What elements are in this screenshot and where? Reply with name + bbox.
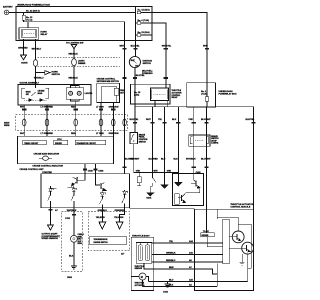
svg-text:BLK/YEL: BLK/YEL: [131, 46, 141, 48]
horn relay output to horn arrow: [18, 39, 28, 64]
svg-text:LT GRN/RED: LT GRN/RED: [41, 133, 54, 135]
wire No.4 branch continues down: [165, 50, 167, 88]
svg-text:HORN: HORN: [21, 63, 28, 65]
svg-text:RELAY: RELAY: [41, 33, 48, 36]
svg-text:(7.5A): (7.5A): [201, 93, 207, 96]
svg-text:CRUISE CONTROL INDICATOR: CRUISE CONTROL INDICATOR: [32, 165, 63, 168]
svg-text:BLK: BLK: [172, 119, 177, 121]
svg-text:DRIVER: DRIVER: [55, 143, 62, 145]
wires from left continuing inside: [216, 264, 218, 287]
to lighting switch arrow: [66, 43, 83, 59]
A/T dashed box with transmission range switch: [88, 208, 130, 256]
svg-text:GRN/ORN: GRN/ORN: [109, 107, 119, 109]
fuse No.13 (7.5A): [22, 12, 125, 48]
svg-text:G101: G101: [163, 291, 169, 293]
ground G501: [67, 266, 77, 279]
svg-text:LAMPS): LAMPS): [211, 142, 218, 145]
transistor Q2 in box: [96, 174, 106, 193]
svg-text:BLU: BLU: [169, 280, 174, 282]
cruise control set/resume switch box: [97, 79, 125, 103]
under-hood fuse/relay box: [16, 4, 152, 41]
svg-text:YEL/GRN: YEL/GRN: [114, 217, 124, 219]
internal ground: [241, 254, 243, 262]
wire ignition down: [134, 68, 136, 107]
throttle actuator motor: [139, 273, 146, 280]
svg-text:LIGHTS: LIGHTS: [85, 93, 93, 95]
svg-text:1: 1: [53, 188, 54, 190]
svg-text:BLK: BLK: [69, 255, 74, 257]
svg-text:BLK/YEL: BLK/YEL: [246, 119, 256, 121]
fuse No.23 row: [135, 31, 152, 36]
svg-text:BLU: BLU: [161, 159, 166, 161]
svg-text:(15A): (15A): [134, 93, 140, 96]
horn relay: [19, 22, 48, 40]
svg-text:WHT/BLU: WHT/BLU: [32, 48, 42, 50]
connector oval on horn wire: [33, 60, 37, 67]
svg-text:BLK/YEL: BLK/YEL: [125, 159, 135, 161]
cruise control unit box: [18, 136, 114, 167]
fuse No.15 row: [137, 8, 207, 48]
svg-text:M: M: [141, 276, 143, 279]
transistor Q5 (circled): [232, 231, 244, 243]
svg-text:SWITCH: SWITCH: [139, 141, 147, 143]
wire battery to box: [9, 11, 136, 13]
diode-switch chains in box: [48, 186, 128, 208]
svg-text:RED: RED: [71, 107, 76, 109]
svg-text:RING: RING: [78, 243, 83, 245]
fuse No.4 row: [135, 19, 165, 48]
svg-text:WHT: WHT: [20, 107, 25, 109]
svg-text:WHT: WHT: [146, 119, 151, 121]
svg-text:1: 1: [127, 191, 128, 193]
svg-text:LT GRN: LT GRN: [96, 107, 104, 109]
svg-text:WHT/BLU: WHT/BLU: [34, 78, 44, 80]
cable reel dashed box: [62, 208, 85, 272]
svg-text:G401: G401: [146, 197, 152, 200]
right internal rail: [250, 224, 252, 268]
svg-text:SET/RESUME SWITCH: SET/RESUME SWITCH: [97, 81, 120, 83]
chain 2: [73, 188, 75, 189]
svg-text:SW: SW: [26, 94, 29, 96]
svg-text:LT GRN/RED: LT GRN/RED: [41, 107, 54, 109]
chain 3: [101, 191, 103, 194]
svg-text:PNK: PNK: [189, 119, 194, 121]
svg-text:GRN/ORN: GRN/ORN: [109, 133, 119, 135]
wires below big box: [48, 209, 52, 211]
svg-text:TRANSMISSION: TRANSMISSION: [94, 238, 108, 241]
throttle actuator control relay box: [131, 84, 183, 107]
svg-text:RED/BLU: RED/BLU: [166, 260, 176, 262]
svg-text:WHT/YEL: WHT/YEL: [162, 46, 172, 48]
svg-text:BLK/YEL: BLK/YEL: [136, 75, 146, 77]
svg-text:YEL/RED: YEL/RED: [96, 217, 106, 219]
labels + ticks row y=117-124: [130, 119, 256, 121]
chain 4: [124, 190, 126, 191]
svg-text:WHT: WHT: [203, 46, 208, 48]
svg-text:GRN/BLK: GRN/BLK: [166, 253, 176, 255]
svg-text:BLK: BLK: [174, 159, 179, 161]
throttle body box: [131, 235, 154, 290]
svg-text:GRN/RED: GRN/RED: [18, 48, 28, 50]
wire color labels above ticks: [120, 46, 209, 48]
svg-text:SPEED SENSOR: SPEED SENSOR: [42, 238, 59, 240]
svg-text:RED/BLK: RED/BLK: [69, 78, 79, 80]
relay coil component on bus: [138, 172, 140, 177]
switch on bus: [152, 172, 154, 177]
svg-text:G501: G501: [67, 277, 73, 279]
svg-text:C705: C705: [65, 218, 71, 220]
ignition switch: [129, 56, 153, 74]
svg-text:DIMMER: DIMMER: [78, 63, 86, 65]
ground G401: [150, 187, 152, 193]
dash lights brightness controller (dashed harness): [33, 58, 120, 85]
svg-text:(7.5 A): (7.5 A): [26, 18, 33, 21]
svg-text:RANGE SWITCH: RANGE SWITCH: [94, 241, 109, 244]
CPU bar: [223, 219, 229, 263]
svg-text:LT GRN: LT GRN: [96, 133, 104, 135]
svg-text:CRUISE MAIN INDICATOR: CRUISE MAIN INDICATOR: [34, 152, 60, 155]
cruise main switch in gauge: [22, 85, 49, 102]
svg-text:1: 1: [105, 193, 106, 195]
horizontal bus y=105.5 to module: [135, 107, 254, 210]
svg-text:RED: RED: [71, 133, 76, 135]
transistor Q1 in box: [72, 174, 85, 189]
gauge assembly box: [18, 82, 91, 105]
transistor Q6 (circled): [242, 242, 254, 254]
throttle position sensor: [136, 243, 151, 264]
svg-text:BLU/WHT: BLU/WHT: [201, 159, 211, 161]
svg-text:WHT/BLK: WHT/BLK: [186, 159, 196, 161]
svg-text:WHT: WHT: [120, 46, 125, 48]
svg-text:TRANSISTOR CIRCUIT: TRANSISTOR CIRCUIT: [76, 142, 96, 145]
svg-text:RELAY: RELAY: [172, 96, 179, 99]
svg-text:RED/BLK: RED/BLK: [69, 54, 79, 56]
wire from big box bottom to module: [130, 207, 195, 209]
brake pedal position switch: [130, 107, 148, 173]
svg-text:CONTROL MODULE: CONTROL MODULE: [230, 207, 250, 209]
svg-text:BRN: BRN: [169, 267, 174, 269]
svg-text:DRIVER: DRIVER: [202, 235, 209, 237]
svg-text:CRUISE CONTROL UNIT: CRUISE CONTROL UNIT: [19, 169, 44, 171]
svg-text:WIRE: WIRE: [4, 125, 10, 127]
internal divider / battery feed: [134, 6, 136, 40]
ground bus y=172.3: [134, 170, 182, 199]
output shaft speed sensor arrow: [42, 225, 61, 240]
vertical drops from bus: [152, 107, 154, 173]
floor wire harness dashed box with connectors: [4, 115, 128, 130]
svg-text:C549: C549: [88, 169, 94, 172]
svg-text:1: 1: [76, 188, 77, 190]
svg-text:SWITCH: SWITCH: [143, 63, 152, 65]
svg-text:BLU/RED: BLU/RED: [149, 159, 159, 161]
svg-text:SENSOR: SENSOR: [135, 268, 143, 270]
svg-text:BLK: BLK: [169, 284, 174, 286]
throttle body to module wires: [131, 243, 247, 287]
labels row y=157-161: [125, 159, 212, 161]
gauge illumination bulbs: [66, 85, 92, 105]
ground triangle mid: [164, 172, 166, 185]
svg-text:No. 32 (100 A): No. 32 (100 A): [26, 9, 40, 12]
wires below gauge to cruise unit: [24, 103, 113, 137]
module internal wiring: [205, 209, 207, 232]
svg-text:BLK/YEL: BLK/YEL: [130, 119, 140, 121]
svg-text:MAIN: MAIN: [38, 92, 43, 95]
wire No.13 branch continues down: [124, 50, 126, 174]
svg-text:WHT: WHT: [20, 133, 25, 135]
interlock box B1 with transistors: [173, 174, 204, 206]
svg-text:No. 15 (15A): No. 15 (15A): [138, 8, 150, 11]
svg-text:C548: C548: [98, 169, 104, 172]
brake switch (wide, two terminals): [189, 135, 219, 146]
svg-text:FUSE/RELAY BOX: FUSE/RELAY BOX: [219, 93, 238, 96]
svg-text:BATTERY: BATTERY: [3, 6, 13, 9]
chain 1: [49, 186, 51, 188]
branch arrow to horn switch: [36, 72, 45, 74]
connector row ticks y=48.5: [123, 48, 210, 50]
under-dash fuse/relay box: [187, 50, 237, 107]
ground G101: [163, 282, 171, 294]
svg-text:2: 2: [77, 178, 78, 180]
svg-text:SWITCH: SWITCH: [52, 74, 61, 76]
svg-text:TIMING CIRCUIT: TIMING CIRCUIT: [24, 143, 39, 145]
steering switch big box: [41, 171, 130, 208]
internal link: [50, 187, 56, 189]
under-dash box outputs: [193, 107, 195, 174]
throttle actuator control module box: [195, 203, 254, 290]
transistor Q3: [193, 174, 195, 180]
ground triangle right: [177, 172, 179, 182]
transistor Q4: [182, 193, 186, 197]
battery B1: [3, 6, 13, 15]
horn relay second output down to gauge: [32, 39, 61, 84]
svg-text:BLU/WHT: BLU/WHT: [201, 119, 211, 121]
cruise unit outputs to steering box: [83, 164, 127, 174]
